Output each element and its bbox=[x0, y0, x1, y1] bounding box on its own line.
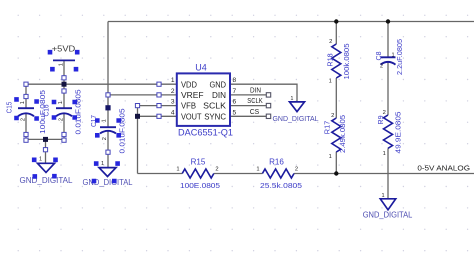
svg-text:GND_DIGITAL: GND_DIGITAL bbox=[273, 114, 319, 123]
svg-text:DIN: DIN bbox=[212, 91, 226, 100]
svg-text:1: 1 bbox=[383, 151, 386, 157]
svg-text:R16: R16 bbox=[269, 158, 284, 167]
junction R17 bottom rail bbox=[334, 171, 338, 175]
svg-text:6: 6 bbox=[233, 99, 237, 106]
wire R18 to R17 bbox=[335, 78, 337, 118]
svg-text:1: 1 bbox=[20, 101, 26, 104]
svg-text:1: 1 bbox=[256, 166, 259, 172]
svg-text:100E.0805: 100E.0805 bbox=[180, 181, 220, 190]
svg-text:C16: C16 bbox=[42, 105, 51, 117]
junction VFB VOUT bbox=[135, 114, 140, 119]
wire DIN pin 7 bbox=[230, 94, 269, 96]
svg-text:1: 1 bbox=[101, 161, 104, 167]
svg-text:49.9E.0805: 49.9E.0805 bbox=[394, 112, 403, 154]
wire vertical from top rail down to VREF row bbox=[107, 22, 109, 95]
svg-text:2: 2 bbox=[59, 118, 65, 121]
svg-text:GND_DIGITAL: GND_DIGITAL bbox=[83, 178, 133, 187]
svg-text:DIN: DIN bbox=[250, 87, 261, 94]
svg-text:DAC6551-Q1: DAC6551-Q1 bbox=[178, 128, 233, 138]
svg-text:GND_DIGITAL: GND_DIGITAL bbox=[363, 211, 413, 220]
svg-text:5: 5 bbox=[233, 109, 237, 116]
svg-text:SCLK: SCLK bbox=[247, 98, 263, 105]
svg-text:1: 1 bbox=[329, 79, 332, 85]
svg-text:0-5V ANALOG: 0-5V ANALOG bbox=[417, 163, 470, 172]
wire stem to GND1 bbox=[45, 139, 47, 163]
ground GND2 GND_DIGITAL bbox=[99, 168, 116, 177]
wire C15 top lead bbox=[25, 84, 27, 108]
wire VOUT pin 4 bbox=[138, 115, 177, 117]
svg-text:VDD: VDD bbox=[181, 80, 197, 89]
svg-text:2: 2 bbox=[21, 118, 27, 121]
wire between R15 and R16 bbox=[214, 173, 263, 175]
junction +5VD rail bbox=[62, 82, 67, 87]
svg-text:SYNC: SYNC bbox=[204, 112, 226, 121]
svg-text:R9: R9 bbox=[376, 116, 385, 125]
svg-text:2.49k.0805: 2.49k.0805 bbox=[338, 115, 347, 153]
capacitor C16 bbox=[56, 107, 72, 109]
svg-text:VFB: VFB bbox=[181, 102, 196, 111]
svg-text:VOUT: VOUT bbox=[181, 112, 202, 121]
wire +5V rail to pin 1 VDD bbox=[26, 83, 177, 85]
svg-text:2.2uF.0805: 2.2uF.0805 bbox=[395, 39, 404, 75]
svg-text:0.01uF.0805: 0.01uF.0805 bbox=[118, 109, 127, 154]
svg-text:3: 3 bbox=[171, 99, 175, 106]
svg-text:GND_DIGITAL: GND_DIGITAL bbox=[20, 176, 73, 185]
svg-text:7: 7 bbox=[233, 88, 237, 95]
svg-text:1: 1 bbox=[58, 101, 64, 104]
svg-text:+5VD: +5VD bbox=[52, 45, 76, 54]
ground GND4 near U4 GND_DIGITAL bbox=[290, 102, 305, 112]
svg-text:2: 2 bbox=[215, 166, 218, 172]
svg-text:SCLK: SCLK bbox=[203, 102, 226, 111]
svg-text:1: 1 bbox=[381, 193, 384, 199]
wire CS pin 5 bbox=[230, 115, 269, 117]
svg-text:R18: R18 bbox=[326, 53, 335, 66]
resistor R9 bbox=[384, 115, 393, 148]
wire +5VD stem bbox=[63, 60, 65, 84]
svg-text:100k.0805: 100k.0805 bbox=[342, 44, 351, 80]
ground GND3 under R9 GND_DIGITAL bbox=[380, 199, 395, 210]
wire VFB pin 3 bbox=[138, 105, 177, 107]
power +5VD bbox=[53, 59, 75, 61]
wire C17 top link bbox=[107, 95, 109, 127]
wire C8 top lead bbox=[387, 22, 389, 58]
capacitor C8 bbox=[381, 56, 396, 58]
wire ground rail under C15 C16 bbox=[26, 138, 64, 140]
junction node C17 VREF bbox=[105, 105, 110, 110]
svg-text:C8: C8 bbox=[374, 52, 383, 61]
svg-text:2: 2 bbox=[171, 88, 175, 95]
wire C17 bottom lead to GND2 bbox=[107, 131, 109, 168]
wire pin 8 GND to ground bbox=[230, 84, 297, 102]
wire C16 bottom lead bbox=[63, 113, 65, 139]
wire C16 top lead bbox=[63, 84, 65, 108]
junction top rail C8 bbox=[386, 19, 390, 23]
svg-text:1: 1 bbox=[392, 52, 395, 58]
svg-text:4: 4 bbox=[171, 109, 175, 116]
svg-text:1: 1 bbox=[176, 166, 179, 172]
wire vertical VFB to bottom rail bbox=[137, 106, 139, 174]
wire C15 bottom lead bbox=[25, 113, 27, 139]
svg-text:1: 1 bbox=[39, 157, 42, 163]
resistor R18 bbox=[332, 44, 341, 78]
capacitor C17 bbox=[100, 126, 116, 128]
resistor R15 bbox=[182, 169, 214, 178]
wire top rail from corner to right edge bbox=[108, 21, 474, 23]
junction top rail R18 bbox=[334, 19, 338, 23]
svg-text:1: 1 bbox=[329, 154, 332, 160]
wire vertex squares (hollow) bbox=[24, 82, 28, 86]
IC U4 DAC6551-Q1 bbox=[177, 73, 230, 126]
wire R18 top lead bbox=[335, 22, 337, 45]
svg-text:1: 1 bbox=[59, 63, 65, 66]
svg-text:C15: C15 bbox=[5, 102, 14, 114]
svg-text:1: 1 bbox=[171, 77, 175, 84]
svg-text:R17: R17 bbox=[323, 121, 332, 135]
wire R16 to right edge 0-5V ANALOG bbox=[294, 173, 474, 175]
svg-text:GND: GND bbox=[210, 80, 227, 89]
junction ground rail bbox=[43, 137, 48, 142]
wire C8 to R9 bbox=[387, 62, 389, 115]
wire R17 bottom lead bbox=[335, 152, 337, 174]
wire end squares (gray) bbox=[266, 93, 270, 97]
svg-text:8: 8 bbox=[233, 77, 237, 84]
selection handles (blue grips) bbox=[14, 50, 121, 183]
svg-text:2: 2 bbox=[102, 137, 108, 140]
wire SCLK pin 6 bbox=[230, 105, 269, 107]
wire R9 bottom lead to GND3 bbox=[387, 148, 389, 199]
svg-text:CS: CS bbox=[250, 109, 260, 116]
svg-text:2: 2 bbox=[295, 166, 298, 172]
svg-text:2: 2 bbox=[383, 110, 386, 116]
svg-text:U4: U4 bbox=[195, 63, 207, 73]
svg-text:0.01uF.0805: 0.01uF.0805 bbox=[74, 90, 83, 135]
capacitor C15 bbox=[18, 107, 34, 109]
svg-text:R15: R15 bbox=[191, 158, 206, 167]
wire VREF pin 2 bbox=[108, 94, 177, 96]
svg-text:2: 2 bbox=[329, 39, 332, 45]
svg-text:2: 2 bbox=[331, 113, 334, 119]
svg-text:25.5k.0805: 25.5k.0805 bbox=[260, 181, 302, 190]
svg-text:2: 2 bbox=[380, 63, 383, 69]
svg-text:1: 1 bbox=[101, 119, 107, 122]
ground GND1 GND_DIGITAL bbox=[38, 163, 55, 172]
resistor R16 bbox=[262, 169, 294, 178]
svg-text:1: 1 bbox=[291, 96, 294, 102]
svg-text:VREF: VREF bbox=[181, 91, 204, 100]
resistor R17 bbox=[332, 118, 341, 152]
wire bottom rail segment to R15 bbox=[138, 173, 183, 175]
